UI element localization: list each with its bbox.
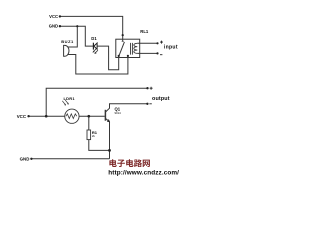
svg-text:VCC: VCC bbox=[49, 14, 58, 19]
terminal input + bbox=[156, 42, 158, 44]
LDR1 circle bbox=[65, 109, 79, 123]
wire coil + lead bbox=[137, 42, 157, 44]
wire GND net to D1 and relay contact bbox=[60, 26, 119, 70]
terminal input - bbox=[156, 52, 158, 54]
svg-text:GND: GND bbox=[20, 156, 30, 161]
diode D1 (LED) bbox=[93, 43, 98, 54]
transistor Q1 base bar bbox=[104, 110, 106, 121]
junction LDR/R1 bbox=[87, 115, 90, 118]
label + input bbox=[160, 41, 163, 44]
LDR1 zigzag bbox=[66, 114, 77, 119]
label - output bbox=[149, 103, 151, 105]
transistor Q1 emitter bbox=[106, 119, 110, 159]
relay contact dot left bbox=[118, 55, 120, 57]
svg-text:input: input bbox=[164, 44, 178, 50]
svg-text:GND: GND bbox=[49, 24, 58, 29]
node VCC bottom dot bbox=[27, 115, 29, 117]
wire R1 top branch bbox=[88, 116, 90, 130]
node GND bottom dot bbox=[30, 158, 32, 160]
wire coil - lead bbox=[137, 52, 157, 54]
svg-text:output: output bbox=[152, 96, 170, 102]
LDR1 light arrows bbox=[62, 100, 69, 106]
svg-text:9014: 9014 bbox=[115, 111, 122, 115]
svg-text:http://www.cndzz.com/: http://www.cndzz.com/ bbox=[108, 169, 179, 176]
svg-text:D1: D1 bbox=[91, 36, 97, 41]
buzzer BUZ1 bbox=[64, 45, 69, 56]
junction dots bbox=[27, 15, 158, 160]
label - input bbox=[160, 54, 162, 56]
relay coil arcs bbox=[134, 43, 138, 53]
transistor Q1 emitter arrow bbox=[107, 119, 110, 122]
wire R1 bottom to emitter bbox=[89, 140, 110, 151]
relay coil core bbox=[131, 43, 133, 55]
terminal output + bbox=[146, 87, 148, 89]
junction buzzer/GND bbox=[76, 25, 78, 27]
relay RL1 box bbox=[116, 39, 140, 57]
relay switch arm bbox=[119, 42, 125, 56]
wire branch to output + bbox=[46, 88, 147, 116]
junction R1/emitter bbox=[108, 149, 111, 152]
wire VCC bottom rail bbox=[29, 115, 105, 117]
junction VCC/rail bbox=[45, 115, 48, 118]
watermark 电子电路网 bbox=[109, 159, 149, 167]
wire GND bottom rail bbox=[31, 158, 109, 160]
relay pin tick bbox=[122, 40, 124, 42]
wire buzzer top to GND bbox=[68, 26, 78, 47]
relay contact dot right bbox=[127, 55, 129, 57]
wire buzzer bottom to relay pin bbox=[67, 55, 128, 75]
label + output bbox=[150, 87, 153, 90]
transistor Q1 collector bbox=[106, 104, 148, 112]
svg-text:VCC: VCC bbox=[17, 114, 27, 119]
svg-text:LDR1: LDR1 bbox=[64, 96, 76, 101]
node GND top dot bbox=[59, 25, 61, 27]
svg-text:BUZ1: BUZ1 bbox=[61, 39, 74, 44]
node VCC top dot bbox=[59, 15, 61, 17]
resistor R1 body bbox=[87, 130, 91, 140]
terminal output - bbox=[146, 103, 148, 105]
svg-text:RL1: RL1 bbox=[140, 29, 149, 34]
junction relay pin top bbox=[122, 34, 124, 36]
wire VCC rail to relay bbox=[60, 16, 123, 41]
